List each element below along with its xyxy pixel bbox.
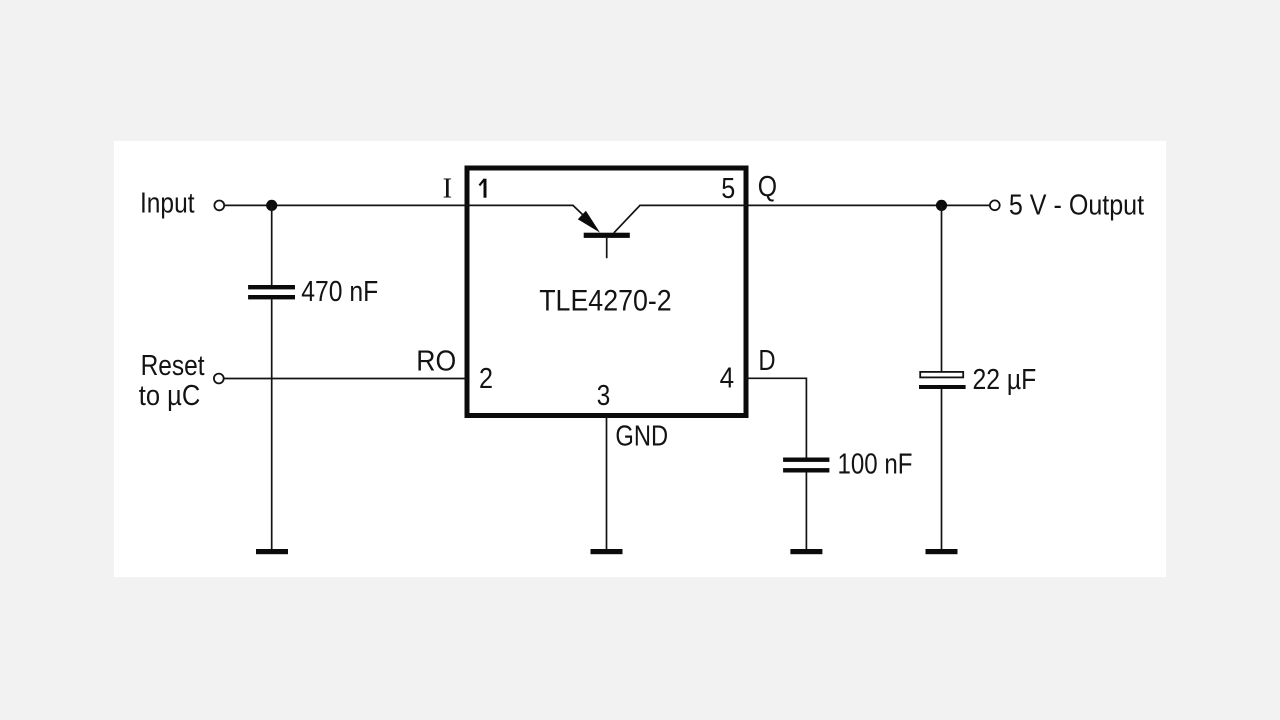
svg-text:470 nF: 470 nF: [301, 276, 378, 308]
svg-text:3: 3: [597, 380, 611, 412]
white schematic panel: [114, 141, 1166, 577]
svg-text:Q: Q: [758, 171, 777, 203]
node junction input: [266, 200, 277, 211]
svg-text:5 V - Output: 5 V - Output: [1009, 190, 1144, 222]
wire pin4 to C2: [746, 378, 806, 457]
pin 1 label: [479, 179, 485, 198]
collector slant: [614, 205, 641, 233]
wire pin5 to output: [641, 204, 990, 206]
svg-text:4: 4: [720, 362, 735, 394]
wire pin3 to ground: [606, 416, 608, 550]
terminal Input: [214, 201, 224, 211]
svg-text:TLE4270-2: TLE4270-2: [539, 284, 672, 317]
svg-text:Input: Input: [140, 188, 195, 220]
label Reset to µC: [139, 350, 205, 412]
IC U1 TLE4270-2 box: [467, 168, 746, 416]
ground under pin 3: [591, 549, 623, 554]
wire C3 vertical upper: [941, 205, 943, 371]
svg-text:2: 2: [479, 363, 493, 395]
node junction output: [936, 200, 947, 211]
svg-text:22 µF: 22 µF: [973, 364, 1037, 396]
wire C1 vertical upper: [271, 205, 273, 285]
svg-text:D: D: [758, 345, 775, 377]
svg-text:I: I: [443, 172, 453, 204]
terminal Output: [990, 200, 1000, 210]
capacitor C2 100 nF: [783, 458, 829, 473]
wire base slant: [573, 205, 583, 214]
wire C3 vertical lower: [941, 389, 943, 549]
transistor Q1 inside IC: [573, 205, 641, 258]
base bar: [584, 233, 630, 238]
svg-text:Reset: Reset: [141, 350, 205, 382]
capacitor C3 22 µF (polarized): [919, 372, 966, 389]
ground under C1: [256, 549, 288, 554]
svg-text:5: 5: [721, 173, 735, 205]
terminal Reset: [214, 374, 224, 384]
ground under C3: [926, 549, 958, 554]
arrow head: [578, 211, 600, 233]
wire C2 vertical lower: [805, 473, 807, 550]
wire reset horizontal to pin 2: [224, 378, 467, 380]
emitter stub: [606, 238, 608, 258]
svg-text:RO: RO: [416, 346, 456, 378]
svg-text:100 nF: 100 nF: [838, 449, 913, 481]
ground under C2: [790, 549, 822, 554]
capacitor C1 470 nF: [248, 285, 295, 299]
wire input horizontal: [225, 204, 574, 206]
svg-text:to µC: to µC: [139, 380, 201, 412]
svg-text:GND: GND: [615, 420, 668, 452]
wire C1 vertical lower: [271, 299, 273, 549]
